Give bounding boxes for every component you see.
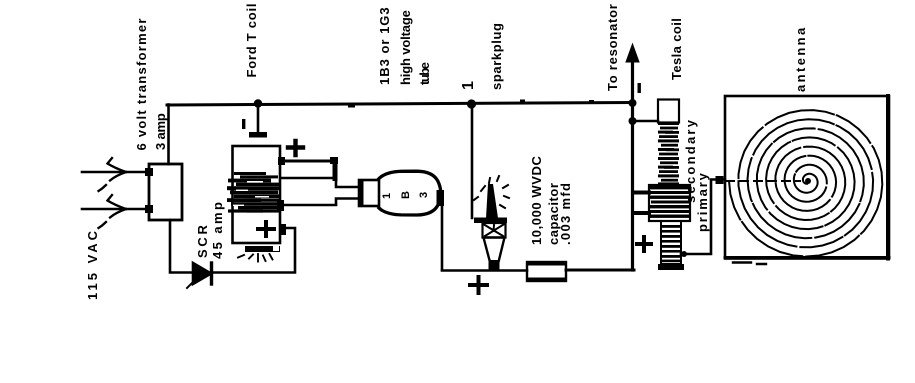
tesla secondary box (658, 100, 679, 123)
wire tube tip down (441, 206, 444, 270)
svg-text:antenna: antenna (793, 25, 808, 92)
svg-text:B: B (400, 191, 412, 199)
svg-text:1: 1 (381, 193, 393, 199)
label plus coil upper right (288, 141, 303, 155)
junction bar tube input (333, 157, 338, 181)
wire primary stub upper (634, 191, 649, 195)
svg-text:tube: tube (417, 62, 432, 85)
sparkplug insulator tip (486, 184, 498, 218)
svg-text:10,000 WVDC: 10,000 WVDC (529, 155, 544, 245)
wire tesla to antenna (681, 180, 725, 255)
node antenna feed blob (716, 176, 724, 184)
antenna frame under dashes (733, 263, 766, 265)
tesla bottom bar (658, 264, 684, 270)
sparkplug body (483, 223, 506, 238)
node junction coil top (254, 99, 262, 107)
tube base (359, 180, 379, 206)
wire top bus (348, 105, 355, 108)
wire transformer top riser (167, 105, 170, 165)
arrow to resonator (626, 44, 639, 62)
sparkplug tip blob (489, 260, 500, 271)
label plus tesla primary (637, 237, 651, 251)
svg-text:SCR: SCR (195, 222, 210, 258)
wire capacitor to tesla (566, 269, 634, 272)
tube tip contact (437, 190, 445, 206)
wire coil out 3 (281, 204, 336, 207)
svg-text:45 amp: 45 amp (210, 200, 225, 259)
svg-text:Ford T coil: Ford T coil (244, 3, 259, 78)
Ford coil right terminal blob (280, 224, 286, 235)
wire to secondary top (632, 120, 658, 123)
wire coil secondary out 2 (281, 177, 336, 180)
wire sparkplug drop (471, 104, 474, 218)
svg-text:6 volt transformer: 6 volt transformer (134, 17, 149, 150)
wire bottom horizontal to capacitor (442, 269, 527, 272)
label plus inside Ford coil (258, 222, 274, 236)
sparkplug taper (484, 238, 505, 265)
label minus coil top (242, 119, 245, 129)
svg-text:Tesla coil: Tesla coil (669, 18, 684, 80)
svg-text:To resonator: To resonator (605, 3, 620, 91)
transformer terminal dot upper (145, 168, 153, 176)
wire SCR to coil plus terminal (214, 228, 295, 273)
antenna frame (725, 96, 889, 259)
Ford coil winding hatch (227, 172, 279, 213)
svg-text:sparkplug: sparkplug (489, 22, 504, 90)
wire coil top riser (257, 104, 260, 134)
wire AC line 1 (82, 171, 149, 174)
svg-text:3 amp: 3 amp (153, 113, 168, 150)
tesla lower column (661, 221, 681, 264)
arrowhead line 1 (108, 158, 127, 172)
label minus tesla top (638, 83, 641, 93)
node 1 junction dot (467, 99, 476, 108)
svg-text:.003 mfd: .003 mfd (558, 182, 573, 245)
antenna center dot (805, 178, 811, 184)
svg-text:high voltage: high voltage (398, 10, 413, 85)
coil top terminal bar (249, 132, 267, 138)
svg-text:1: 1 (460, 81, 477, 90)
transformer T1 box (149, 164, 182, 220)
Ford coil bottom squiggle (238, 254, 273, 262)
antenna feed dash line (726, 180, 800, 182)
node secondary junction (629, 117, 637, 125)
wire AC line 2 (82, 208, 149, 211)
wire transformer bottom to SCR (170, 220, 193, 273)
sparkplug flange (474, 218, 507, 224)
Ford T coil box (233, 146, 281, 243)
wire resonator vertical (631, 58, 634, 270)
node bus-resonator junction (629, 99, 637, 107)
antenna spiral (729, 110, 882, 256)
sparkplug spark dashes (474, 176, 509, 208)
Ford coil bottom bar (245, 246, 280, 252)
tube neck (336, 179, 360, 187)
tesla primary block (649, 185, 690, 221)
label plus under sparkplug (470, 277, 487, 293)
SCR D1 (193, 263, 211, 284)
svg-text:3: 3 (418, 192, 430, 198)
tube bulb V1 (379, 171, 441, 215)
arrowhead line 2 (108, 195, 127, 209)
svg-text:1B3 or 1G3: 1B3 or 1G3 (377, 6, 392, 85)
tesla secondary winding hatch (658, 122, 679, 185)
transformer terminal dot lower (145, 205, 153, 213)
capacitor C1 (527, 262, 566, 281)
wire coil secondary out 1 (281, 160, 335, 163)
wire primary stub lower (634, 211, 649, 215)
svg-text:115 VAC: 115 VAC (85, 228, 100, 300)
svg-text:primary: primary (695, 171, 710, 232)
